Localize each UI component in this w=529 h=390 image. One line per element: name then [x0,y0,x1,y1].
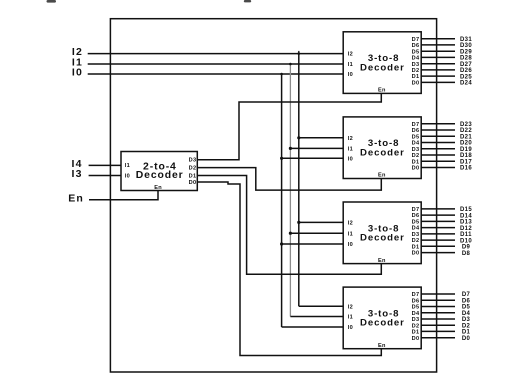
output label D14 [460,213,472,219]
U2 input pin label I2 [348,52,353,58]
U3 output pin label D7 [412,122,420,128]
svg-text:D3: D3 [412,147,420,153]
wire U4 D1 to output D9 [421,245,455,247]
wire U2 D2 to output D26 [421,69,455,71]
U3 enable pin label En [378,173,386,179]
svg-text:D3: D3 [189,158,197,164]
svg-text:D4: D4 [412,141,420,147]
svg-text:I0: I0 [125,173,130,179]
output label D10 [460,238,472,244]
input label I2 [72,46,83,58]
U1 output pin label D1 [189,173,197,179]
output label D2 [462,323,471,329]
svg-text:En: En [378,88,386,94]
svg-text:D4: D4 [412,56,420,62]
svg-text:I0: I0 [348,72,353,78]
wire U2 D5 to output D29 [421,50,455,52]
svg-text:I1: I1 [348,62,353,68]
wire I1 bus to U5 pin I1 [290,316,343,318]
U3 input pin label I2 [348,136,353,142]
svg-text:D2: D2 [412,323,420,329]
svg-text:D1: D1 [189,173,197,179]
wire U4 D6 to output D14 [421,214,455,216]
svg-text:En: En [378,343,386,349]
U2 title [360,53,405,73]
svg-text:D0: D0 [412,251,420,257]
U4 output pin label D4 [412,226,420,232]
svg-text:D20: D20 [460,141,472,147]
wire U4 D5 to output D13 [421,220,455,222]
junction I2 at U4 [297,221,300,224]
junction I1 at U4 [289,232,292,235]
U4 input pin label I0 [348,242,353,248]
svg-text:D0: D0 [412,81,420,87]
svg-text:D2: D2 [189,166,197,172]
wire I2 bus to U4 pin I2 [299,221,343,223]
output label D1 [462,330,471,336]
wire U2 D1 to output D25 [421,75,455,77]
input label I0 [72,67,83,79]
wire U5 D5 to output D5 [421,306,455,308]
wire input I1 to U2 pin I1 [88,63,344,65]
svg-text:D2: D2 [412,153,420,159]
output label D18 [460,153,472,159]
wire U2 D3 to output D27 [421,63,455,65]
U3 title [360,138,405,158]
wire U5 D0 to output D0 [421,337,455,339]
output label D16 [460,166,472,172]
svg-text:D6: D6 [412,213,420,219]
U5 output pin label D6 [412,298,420,304]
wire U2 D6 to output D30 [421,44,455,46]
junction I0 at U4 [280,242,283,245]
junction I2 top [298,51,301,55]
U4 input pin label I1 [348,231,353,237]
wire U1 D0 to U5 En [197,182,381,356]
U5 output pin label D0 [412,336,420,342]
svg-text:D7: D7 [462,292,471,298]
output label D30 [460,43,472,49]
svg-text:I1: I1 [348,147,353,153]
output label D19 [460,147,472,153]
wire I0 bus to U5 pin I0 [282,326,344,328]
wire input I2 to U2 pin I2 [88,53,344,55]
wire U5 D3 to output D3 [421,318,455,320]
svg-text:I0: I0 [72,67,83,79]
svg-text:D17: D17 [460,159,472,165]
bus vertical I1 (light) [289,64,291,317]
wire U3 D7 to output D23 [421,123,455,125]
svg-text:D1: D1 [412,330,420,336]
output label D22 [460,128,472,134]
U4 enable pin label En [378,258,386,264]
svg-text:I3: I3 [72,168,83,180]
svg-text:Decoder: Decoder [360,318,405,329]
output label D6 [462,298,471,304]
output label D7 [462,292,471,298]
svg-text:D29: D29 [460,49,472,55]
wire U5 D4 to output D4 [421,312,455,314]
output label D17 [460,159,472,165]
caption remnant g-descenders [47,0,252,3]
U4 output pin label D5 [412,220,420,226]
output label D27 [460,62,472,68]
wire input I4 to U1 pin I1 [89,164,121,166]
U2 output pin label D7 [412,37,420,43]
junction I1 at U3 [289,147,292,150]
svg-text:D0: D0 [189,180,197,186]
svg-text:D3: D3 [462,317,471,323]
wire U3 D4 to output D20 [421,142,455,144]
svg-text:D22: D22 [460,128,472,134]
svg-text:D5: D5 [412,134,420,140]
output label D28 [460,56,472,62]
U5 input pin label I0 [348,325,353,331]
svg-text:I2: I2 [348,304,353,310]
output label D24 [460,81,472,87]
svg-text:I1: I1 [348,231,353,237]
wire U4 D4 to output D12 [421,227,455,229]
wire U2 D7 to output D31 [421,38,455,40]
svg-text:D5: D5 [412,220,420,226]
wire input En to U1 En pin [89,191,158,200]
svg-text:En: En [154,185,162,191]
U2 output pin label D4 [412,56,420,62]
output label D4 [462,311,471,317]
wire U2 D4 to output D28 [421,56,455,58]
output label D8 [462,251,471,257]
U5 output pin label D3 [412,317,420,323]
U2 output pin label D5 [412,49,420,55]
svg-text:I0: I0 [348,325,353,331]
input label En [68,193,84,205]
U1 enable pin label En [154,185,162,191]
output label D20 [460,141,472,147]
svg-text:D24: D24 [460,81,472,87]
svg-text:D5: D5 [412,305,420,311]
svg-text:D19: D19 [460,147,472,153]
U5 output pin label D1 [412,330,420,336]
wire U4 D3 to output D11 [421,233,455,235]
wire I0 bus to U4 pin I0 [282,243,344,245]
svg-text:Decoder: Decoder [360,233,405,244]
svg-text:I1: I1 [348,315,353,321]
svg-text:D3: D3 [412,317,420,323]
U5 input pin label I1 [348,315,353,321]
svg-text:D1: D1 [412,74,420,80]
3-to-8 decoder U5 body [343,287,421,349]
svg-text:En: En [378,258,386,264]
svg-text:D1: D1 [462,330,471,336]
3-to-8 decoder U4 body [343,202,421,264]
U1 input pin label I0 [125,173,130,179]
svg-text:D6: D6 [412,298,420,304]
wire U1 D1 to U4 En [197,176,381,275]
output label D5 [462,305,471,311]
U1 output pin label D3 [189,158,197,164]
wire I1 bus to U4 pin I1 [290,232,343,234]
svg-text:D4: D4 [412,226,420,232]
svg-text:D6: D6 [412,43,420,49]
U2 output pin label D0 [412,81,420,87]
U4 output pin label D6 [412,213,420,219]
wire input I3 to U1 pin I0 [89,175,121,177]
U3 output pin label D0 [412,166,420,172]
wire input I0 to U2 pin I0 [88,73,344,75]
wire U3 D0 to output D16 [421,167,455,169]
svg-text:D3: D3 [412,62,420,68]
svg-text:Decoder: Decoder [136,170,184,181]
wire I2 bus to U5 pin I2 [299,305,343,307]
U4 output pin label D3 [412,232,420,238]
U4 title [360,223,405,243]
svg-text:D6: D6 [412,128,420,134]
svg-text:D12: D12 [460,226,472,232]
svg-text:D2: D2 [412,68,420,74]
output label D26 [460,68,472,74]
wire U5 D1 to output D1 [421,330,455,332]
svg-text:I0: I0 [348,242,353,248]
output label D12 [460,226,472,232]
svg-text:D15: D15 [460,207,472,213]
svg-text:D7: D7 [412,292,420,298]
U4 input pin label I2 [348,221,353,227]
svg-text:En: En [378,173,386,179]
svg-text:D23: D23 [460,122,472,128]
input label I1 [72,57,83,69]
U1 input pin label I1 [125,163,130,169]
U5 title [360,308,405,328]
svg-text:Decoder: Decoder [360,148,405,159]
U5 output pin label D4 [412,311,420,317]
svg-text:I2: I2 [348,221,353,227]
U5 enable pin label En [378,343,386,349]
svg-text:I1: I1 [125,163,130,169]
outer 5-to-32 decoder block boundary [110,19,436,372]
svg-text:I2: I2 [348,52,353,58]
U4 output pin label D0 [412,251,420,257]
output label D31 [460,37,472,43]
wire I0 bus to U3 pin I0 [282,157,344,159]
svg-text:D28: D28 [460,56,472,62]
svg-text:D27: D27 [460,62,472,68]
U2 output pin label D1 [412,74,420,80]
svg-text:I0: I0 [348,156,353,162]
svg-text:D5: D5 [412,49,420,55]
svg-text:D6: D6 [462,298,471,304]
U2 output pin label D3 [412,62,420,68]
svg-text:D18: D18 [460,153,472,159]
svg-text:D1: D1 [412,244,420,250]
svg-text:D0: D0 [412,336,420,342]
U2 input pin label I0 [348,72,353,78]
wire U4 D0 to output D8 [421,252,455,254]
U3 output pin label D3 [412,147,420,153]
svg-text:D25: D25 [460,74,472,80]
svg-text:D14: D14 [460,213,472,219]
svg-text:D26: D26 [460,68,472,74]
output label D3 [462,317,471,323]
output label D23 [460,122,472,128]
output label D13 [460,220,472,226]
wire U5 D2 to output D2 [421,324,455,326]
U3 input pin label I1 [348,147,353,153]
U2 output pin label D2 [412,68,420,74]
svg-text:D3: D3 [412,232,420,238]
2-to-4 decoder U1 body [121,152,197,191]
U1 output pin label D2 [189,166,197,172]
input label I4 [72,158,83,170]
svg-text:Decoder: Decoder [360,62,405,73]
U4 output pin label D2 [412,238,420,244]
svg-text:D2: D2 [412,238,420,244]
svg-text:D13: D13 [460,220,472,226]
output label D29 [460,49,472,55]
U3 output pin label D4 [412,141,420,147]
output label D0 [462,336,471,342]
svg-text:D5: D5 [462,305,471,311]
wire U2 D0 to output D24 [421,81,455,83]
U3 input pin label I0 [348,156,353,162]
junction I0 at U3 [280,157,283,160]
svg-text:D8: D8 [462,251,471,257]
bus vertical I0 [281,74,283,327]
U3 output pin label D5 [412,134,420,140]
svg-text:D16: D16 [460,166,472,172]
U1 title [136,161,184,181]
wire U1 D3 to U2 En [197,93,381,159]
wire U3 D1 to output D17 [421,160,455,162]
wire I1 bus to U3 pin I1 [290,147,343,149]
svg-text:En: En [68,193,84,205]
U2 output pin label D6 [412,43,420,49]
svg-text:D0: D0 [462,336,471,342]
3-to-8 decoder U2 body [343,32,421,94]
U5 input pin label I2 [348,304,353,310]
U3 output pin label D6 [412,128,420,134]
junction I2 at U3 [297,136,300,139]
input label I3 [72,168,83,180]
U1 output pin label D0 [189,180,197,186]
svg-text:D21: D21 [460,135,472,141]
junction I1 top [289,63,292,66]
svg-text:D31: D31 [460,37,472,43]
svg-text:D1: D1 [412,159,420,165]
output label D11 [460,232,472,238]
U4 output pin label D1 [412,244,420,250]
svg-text:D2: D2 [462,323,471,329]
U2 enable pin label En [378,88,386,94]
svg-text:D7: D7 [412,37,420,43]
junction I0 top [280,73,283,76]
wire U3 D6 to output D22 [421,129,455,131]
svg-text:D4: D4 [412,311,420,317]
wire U3 D3 to output D19 [421,148,455,150]
wire U4 D2 to output D10 [421,239,455,241]
U5 output pin label D2 [412,323,420,329]
svg-text:D4: D4 [462,311,471,317]
wire U5 D7 to output D7 [421,293,455,295]
wire U3 D2 to output D18 [421,154,455,156]
wire U3 D5 to output D21 [421,135,455,137]
wire U5 D6 to output D6 [421,299,455,301]
svg-text:D30: D30 [460,43,472,49]
U3 output pin label D2 [412,153,420,159]
svg-text:D9: D9 [462,245,471,251]
wire U4 D7 to output D15 [421,208,455,210]
U2 input pin label I1 [348,62,353,68]
svg-text:D0: D0 [412,166,420,172]
output label D25 [460,74,472,80]
output label D15 [460,207,472,213]
svg-text:I2: I2 [348,136,353,142]
svg-text:D11: D11 [460,232,472,238]
output label D21 [460,135,472,141]
U3 output pin label D1 [412,159,420,165]
output label D9 [462,245,471,251]
U4 output pin label D7 [412,207,420,213]
svg-text:D10: D10 [460,238,472,244]
svg-text:D7: D7 [412,122,420,128]
U5 output pin label D7 [412,292,420,298]
bus vertical I2 [298,54,300,307]
wire I2 bus to U3 pin I2 [299,137,343,139]
wire U1 D2 to U3 En [197,168,381,191]
3-to-8 decoder U3 body [343,117,421,179]
svg-text:D7: D7 [412,207,420,213]
U5 output pin label D5 [412,305,420,311]
